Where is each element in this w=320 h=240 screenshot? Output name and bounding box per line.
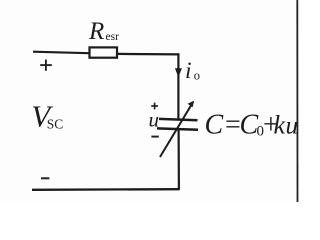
svg-text:o: o: [194, 69, 200, 83]
arrowhead current io: [175, 68, 182, 77]
minus sign below u: [151, 136, 158, 138]
wire right vertical upper segment: [177, 53, 179, 119]
plus sign above u: [151, 103, 158, 110]
resistor Resr body: [90, 47, 118, 57]
capacitor C top plate: [159, 119, 198, 120]
svg-text:SC: SC: [47, 116, 64, 131]
svg-text:R: R: [88, 18, 104, 45]
wire right vertical lower segment: [178, 130, 180, 190]
svg-text:u: u: [149, 107, 160, 131]
variable capacitor diagonal arrow: [160, 104, 192, 157]
minus sign of source: [41, 177, 49, 179]
svg-text:i: i: [185, 58, 192, 84]
scan artifact vertical line at right edge: [296, 0, 298, 202]
svg-text:esr: esr: [106, 31, 120, 43]
wire bottom from source - terminal to right corner: [32, 188, 180, 191]
wire top-right from resistor to corner: [117, 53, 180, 56]
plus sign of source: [40, 60, 52, 71]
wire top-left from source + terminal to resistor: [33, 52, 89, 54]
svg-text:C=C0+ku: C=C0+ku: [205, 110, 299, 141]
capacitor C bottom plate: [157, 128, 198, 129]
